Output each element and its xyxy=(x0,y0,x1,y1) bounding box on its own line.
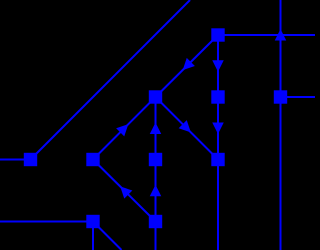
wire E right to edge xyxy=(218,34,315,36)
arrowhead E to F xyxy=(212,60,224,72)
node B xyxy=(86,153,99,166)
wire H right to edge xyxy=(281,96,316,98)
node E xyxy=(211,28,224,41)
node B2 xyxy=(86,215,99,228)
node F xyxy=(211,90,224,103)
arrowhead C to G xyxy=(179,120,191,132)
wire B2 down to bottom edge xyxy=(92,222,94,250)
arrowhead F to G xyxy=(212,123,224,135)
node D xyxy=(149,153,162,166)
node D2 xyxy=(149,215,162,228)
wire edge D-C xyxy=(155,97,157,160)
wire H vertical full xyxy=(280,0,282,250)
wire left edge to B2 xyxy=(0,221,93,223)
arrowhead H up xyxy=(275,29,287,41)
wire edge C-G xyxy=(156,97,219,160)
wire edge F-G xyxy=(217,97,219,160)
wire G down to bottom edge xyxy=(217,160,219,250)
wire edge E-C xyxy=(156,35,219,97)
wire D2 down to bottom edge xyxy=(155,222,157,250)
node G xyxy=(211,153,224,166)
wire edge E-F xyxy=(217,35,219,97)
arrowhead E to C xyxy=(183,58,195,70)
node H xyxy=(274,90,287,103)
wire left edge to A xyxy=(0,159,31,161)
wire edge B-C xyxy=(93,97,156,160)
arrowhead D2 to B xyxy=(120,186,132,198)
arrowhead B to C xyxy=(116,124,128,136)
node A xyxy=(24,153,37,166)
wire edge D2-D xyxy=(155,160,157,222)
wire long diagonal A to top edge xyxy=(31,0,191,160)
arrowhead D to C xyxy=(150,123,162,135)
node C xyxy=(149,90,162,103)
wire B2 diagonal to bottom edge xyxy=(93,222,122,250)
wire edge D2-B xyxy=(93,160,156,222)
arrowhead D2 to D xyxy=(150,185,162,197)
